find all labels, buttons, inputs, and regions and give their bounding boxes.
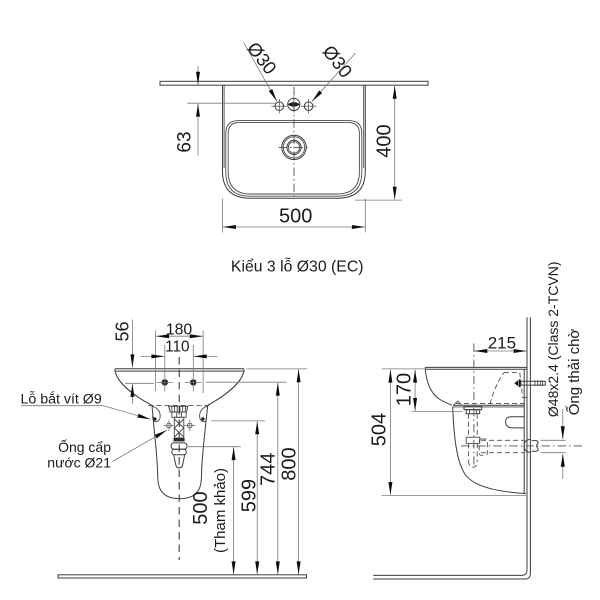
ext trap line (188, 446, 241, 448)
dim 215 (474, 334, 527, 465)
svg-text:504: 504 (369, 413, 391, 446)
right flap hole dot (201, 417, 204, 420)
basin inner rim line 1 (plan) (226, 121, 362, 197)
left mounting flap (152, 406, 160, 422)
ext basin top (247, 368, 308, 370)
dim 599 (239, 422, 261, 575)
svg-text:Kiểu 3 lỗ Ø30 (EC): Kiểu 3 lỗ Ø30 (EC) (231, 257, 364, 276)
horizontal waste pipe hidden (side) (479, 439, 524, 455)
svg-text:56: 56 (112, 321, 132, 341)
dim 63 lower segment (197, 104, 199, 156)
supply hole right (+ mark) (184, 420, 195, 431)
wall and floor (inner line) (373, 317, 527, 575)
svg-text:500: 500 (190, 491, 212, 524)
overflow notch (454, 401, 461, 405)
svg-text:599: 599 (239, 479, 261, 512)
screw hole left (top) (157, 379, 174, 385)
svg-text:(Tham khảo): (Tham khảo) (212, 468, 229, 553)
waste pipe centerline (461, 445, 584, 447)
rim shelf (double line) (453, 405, 525, 407)
drain (plan) (279, 135, 310, 159)
basin front profile (425, 369, 452, 405)
right mounting flap (200, 406, 208, 422)
soap recess (506, 417, 525, 428)
svg-text:800: 800 (278, 447, 300, 480)
dark nut (174, 438, 185, 441)
svg-text:500: 500 (279, 206, 312, 228)
screw hole right (top) (185, 379, 202, 385)
mounting boss hidden outline (456, 373, 527, 405)
nuts row (172, 412, 186, 417)
basin outer outline (plan) (223, 85, 225, 168)
plan centerline (vertical dash-dot) (293, 87, 295, 197)
supply pipe with cross hatch (174, 417, 184, 438)
dim 63 upper arrow segment (197, 66, 199, 85)
bracket block with hatching (169, 406, 188, 412)
dim 500 (plan bottom) (223, 199, 366, 233)
dim 180 (156, 322, 204, 394)
tail pipe hidden (side) (466, 414, 480, 468)
dim O48 arrows (541, 409, 566, 479)
dim 400 (plan right) (355, 86, 402, 200)
floor line (front view) (58, 575, 307, 578)
shroud front profile (side) (453, 407, 526, 494)
svg-text:Ống cấp: Ống cấp (58, 438, 111, 455)
svg-text:215: 215 (488, 334, 516, 353)
front view centerline (178, 357, 180, 560)
dim 504 (369, 369, 526, 496)
left faucet hole (272, 99, 288, 114)
bowl underside right (208, 371, 244, 405)
label: Lo bat vit O9 (21, 391, 151, 420)
basin top edge (side, double line) (425, 367, 527, 369)
shroud top hidden line (149, 404, 212, 406)
dim 63 extension line (187, 102, 276, 104)
wall bolt (514, 379, 545, 387)
dim 110 (141, 338, 218, 391)
svg-text:180: 180 (166, 322, 193, 339)
ring (172, 449, 186, 455)
svg-text:nước Ø21: nước Ø21 (47, 455, 111, 471)
svg-text:Ống thải chờ: Ống thải chờ (565, 329, 583, 416)
left flap hole dot (153, 417, 156, 420)
ext supply line (211, 420, 265, 422)
counter / wall bar (160, 81, 428, 85)
unit back line (523, 369, 525, 493)
svg-text:744: 744 (257, 453, 279, 486)
dim 56 (112, 320, 154, 404)
label Ø30 left (243, 38, 281, 101)
dim 500 (tham khao) (190, 447, 234, 574)
label: Ong cap nuoc O21 (47, 430, 167, 470)
dim 800 (278, 370, 300, 575)
ext screw line (206, 381, 287, 383)
basin inner rim line 2 (plan) (228, 122, 359, 194)
bowl underside left (115, 371, 152, 405)
dim 170 (394, 370, 463, 412)
coupling (171, 443, 187, 449)
dim 744 (257, 383, 279, 574)
supply hole left (+ mark) (163, 420, 174, 431)
wall stub (ong thai cho) (524, 439, 538, 452)
right faucet hole (301, 99, 317, 114)
svg-text:Lỗ bắt vít Ø9: Lỗ bắt vít Ø9 (21, 391, 102, 408)
bottle cup (174, 455, 185, 468)
center faucet hole (288, 97, 300, 113)
pedestal shroud outline (152, 405, 208, 498)
svg-text:400: 400 (374, 124, 396, 157)
svg-text:Ø48x2.4 (Class 2-TCVN): Ø48x2.4 (Class 2-TCVN) (545, 262, 561, 418)
label Ø30 right (312, 41, 357, 101)
drain flange (side) (464, 407, 482, 414)
svg-text:110: 110 (165, 338, 189, 355)
svg-text:170: 170 (394, 373, 416, 406)
svg-text:63: 63 (175, 131, 196, 152)
basin top edge (double line) (115, 369, 244, 371)
trap assembly (front view) (169, 406, 188, 468)
wall and floor (outer line) (373, 317, 530, 579)
